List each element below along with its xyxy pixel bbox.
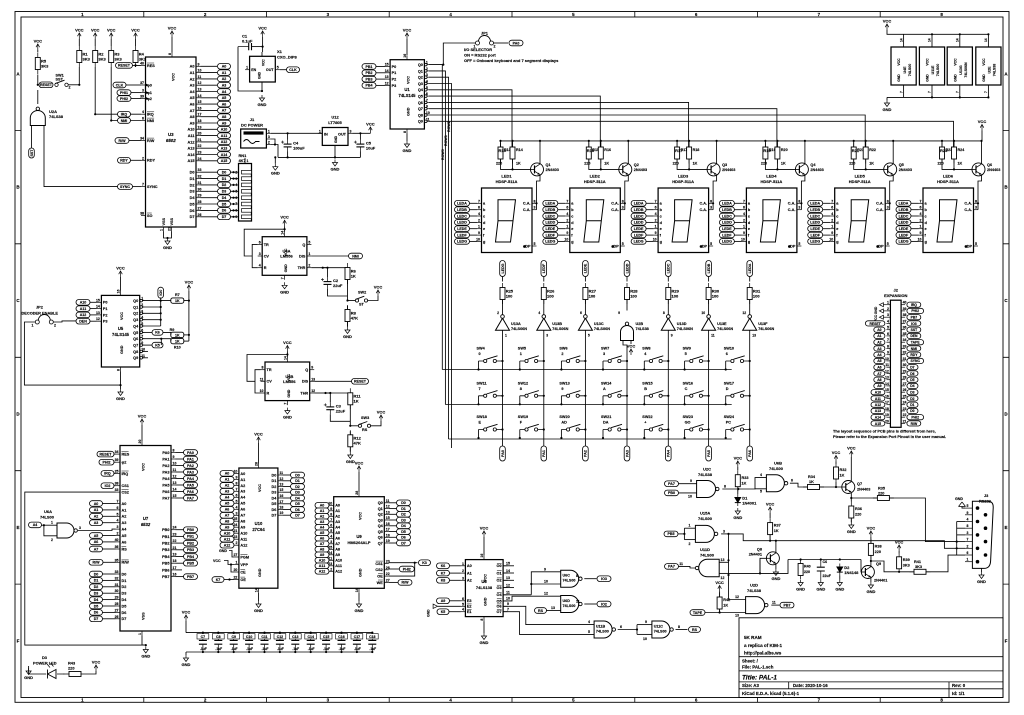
- svg-text:PB5: PB5: [187, 562, 194, 566]
- wire: [823, 234, 831, 236]
- svg-text:15: 15: [385, 63, 389, 67]
- svg-text:LEDE: LEDE: [457, 227, 467, 231]
- svg-text:A2: A2: [240, 484, 245, 488]
- node D3: [218, 189, 231, 195]
- svg-text:17: 17: [173, 566, 177, 570]
- node LEDB column: [706, 261, 712, 277]
- svg-text:R38: R38: [875, 544, 882, 548]
- svg-text:File: PAL-1.sch: File: PAL-1.sch: [742, 665, 774, 670]
- svg-text:C.A.: C.A.: [523, 202, 531, 206]
- svg-text:U6D: U6D: [563, 599, 571, 603]
- wire switch to row bus: [684, 361, 686, 370]
- capacitor C7 0.1uF: [202, 633, 204, 652]
- resistor R35 220: [873, 496, 894, 501]
- wire: [406, 134, 408, 142]
- svg-text:VCC: VCC: [131, 28, 140, 33]
- svg-text:CS2: CS2: [375, 568, 382, 572]
- wire: [347, 267, 349, 269]
- wire: [708, 330, 710, 355]
- power VCC: [280, 215, 289, 227]
- wire U5 Q9 stub: [143, 357, 149, 359]
- svg-text:D0: D0: [94, 572, 99, 576]
- switch SW1 SST: [55, 83, 58, 86]
- wire keyboard column: [584, 355, 586, 444]
- svg-text:6: 6: [235, 196, 237, 200]
- svg-text:24: 24: [198, 157, 202, 161]
- wire: [160, 298, 162, 301]
- svg-text:23: 23: [198, 151, 202, 155]
- svg-text:c: c: [660, 214, 662, 218]
- svg-text:1: 1: [235, 561, 237, 565]
- display LED1 segments: [496, 200, 516, 242]
- wire U6D out: [584, 603, 596, 605]
- svg-text:6: 6: [478, 206, 480, 210]
- svg-text:27: 27: [233, 553, 237, 557]
- node D6: [90, 610, 103, 616]
- svg-text:74LS00: 74LS00: [908, 64, 912, 77]
- svg-text:5: 5: [462, 602, 464, 606]
- wire switch to row bus: [725, 361, 727, 370]
- svg-text:4: 4: [462, 608, 464, 612]
- svg-text:16: 16: [279, 494, 283, 498]
- wire: [823, 202, 831, 204]
- svg-text:VCC: VCC: [832, 450, 841, 455]
- svg-text:J2: J2: [893, 288, 898, 293]
- svg-text:220: 220: [804, 570, 810, 574]
- svg-text:IRQ: IRQ: [121, 113, 128, 117]
- wire: [389, 536, 397, 538]
- wire R2 to IRQ: [95, 67, 141, 114]
- svg-text:JP1: JP1: [481, 31, 489, 36]
- svg-text:C15: C15: [323, 635, 329, 639]
- svg-text:A12: A12: [224, 544, 231, 548]
- decoder U8 74LS138: [465, 560, 503, 617]
- svg-text:D1: D1: [190, 177, 195, 181]
- display LED6 DP dot: [965, 245, 968, 248]
- resistor network RN1 4K7: [239, 164, 252, 222]
- svg-text:D6: D6: [272, 508, 277, 512]
- svg-text:PB0: PB0: [162, 528, 169, 532]
- svg-text:NMI: NMI: [911, 347, 917, 351]
- wire: [734, 202, 742, 204]
- display LED5 segments: [849, 200, 869, 242]
- wire U15A in jog: [683, 528, 685, 539]
- svg-text:GND: GND: [883, 107, 892, 112]
- svg-text:4: 4: [235, 505, 237, 509]
- svg-text:5: 5: [685, 352, 687, 356]
- decoder U8 pins: [461, 554, 508, 621]
- svg-text:8: 8: [534, 199, 536, 203]
- svg-text:NMI: NMI: [121, 119, 128, 123]
- wire: [103, 579, 116, 581]
- svg-text:12: 12: [385, 81, 389, 85]
- svg-text:A5: A5: [877, 359, 881, 363]
- wire collector to CA: [801, 175, 805, 210]
- svg-text:CLK: CLK: [116, 83, 124, 87]
- node A0: [220, 471, 234, 477]
- wire: [483, 537, 485, 555]
- wire: [389, 568, 399, 570]
- node D4: [291, 495, 305, 501]
- svg-text:R/W: R/W: [402, 581, 410, 585]
- svg-text:3: 3: [268, 135, 270, 139]
- svg-text:VCC: VCC: [138, 414, 147, 419]
- decoder U5 74LS145: [101, 295, 139, 367]
- wire: [262, 37, 264, 52]
- node LEDF: [896, 232, 911, 238]
- svg-text:Q4: Q4: [133, 324, 139, 328]
- node RESET J2: [865, 321, 885, 326]
- wire rail to Q9 base: [860, 560, 862, 573]
- svg-text:1N4001: 1N4001: [742, 500, 757, 505]
- svg-text:13: 13: [311, 377, 315, 381]
- svg-text:R35: R35: [878, 487, 885, 491]
- node A2: [218, 76, 231, 82]
- svg-text:R34: R34: [808, 475, 816, 479]
- svg-text:R14: R14: [516, 148, 524, 152]
- svg-text:100: 100: [547, 293, 554, 298]
- wire: [282, 503, 291, 505]
- svg-text:LEDC: LEDC: [667, 263, 671, 273]
- svg-text:13: 13: [735, 613, 739, 617]
- wire U2A input B to SYNC: [44, 126, 118, 187]
- resistor R42 1K: [717, 593, 722, 614]
- node K3: [419, 560, 431, 566]
- node LEDC: [631, 213, 646, 219]
- svg-text:VCC: VCC: [403, 28, 412, 33]
- svg-text:4: 4: [566, 212, 568, 216]
- wire switch to row bus: [643, 396, 645, 405]
- svg-text:LEDG: LEDG: [810, 240, 820, 244]
- svg-text:D1: D1: [122, 579, 127, 583]
- wire: [103, 515, 116, 517]
- svg-text:D6: D6: [222, 209, 227, 213]
- svg-text:11: 11: [198, 75, 202, 79]
- node D1 J2: [907, 402, 918, 407]
- svg-text:PA5: PA5: [162, 483, 169, 487]
- svg-text:R41: R41: [914, 560, 921, 564]
- svg-text:D7: D7: [401, 541, 406, 545]
- wire collector to R41: [871, 561, 914, 572]
- svg-text:6: 6: [726, 352, 728, 356]
- svg-text:22: 22: [903, 413, 907, 417]
- wire U11C out: [676, 629, 688, 631]
- svg-text:A10: A10: [240, 532, 247, 536]
- svg-text:2: 2: [566, 218, 568, 222]
- svg-text:Please refer to the Expansion: Please refer to the Expansion Port Pinou…: [833, 434, 946, 439]
- svg-text:74LS00: 74LS00: [596, 629, 609, 633]
- node K5: [437, 609, 449, 615]
- wire emitter to rail: [539, 141, 541, 164]
- svg-text:C.A.: C.A.: [611, 208, 619, 212]
- connector J1 DC power: [241, 129, 267, 148]
- decoder U5 output bubbles: [140, 299, 143, 302]
- svg-text:TAPE: TAPE: [911, 341, 921, 345]
- wire: [558, 215, 566, 217]
- wire: [483, 621, 485, 633]
- svg-text:18: 18: [386, 533, 390, 537]
- svg-text:Q8: Q8: [418, 113, 423, 117]
- svg-text:9: 9: [655, 231, 657, 235]
- svg-text:7: 7: [831, 199, 833, 203]
- resistor R13 220: [498, 143, 507, 164]
- svg-text:VCC: VCC: [978, 119, 987, 124]
- wire: [494, 42, 509, 44]
- svg-text:U7: U7: [143, 516, 149, 521]
- svg-text:LEDD: LEDD: [634, 221, 644, 225]
- wire U5 Q1: [143, 306, 161, 308]
- wire: [244, 158, 246, 164]
- svg-text:8: 8: [168, 53, 172, 55]
- svg-text:A6: A6: [335, 537, 340, 541]
- svg-text:PB1: PB1: [366, 65, 373, 69]
- svg-text:D0: D0: [401, 501, 406, 505]
- node A6: [315, 536, 329, 542]
- svg-text:2: 2: [831, 218, 833, 222]
- wire: [749, 444, 751, 446]
- svg-text:74LS06N: 74LS06N: [594, 327, 610, 331]
- wire: [201, 178, 239, 180]
- switch SW20 key AD: [561, 429, 585, 431]
- wire THR chain A: [323, 267, 348, 269]
- svg-text:Q2: Q2: [378, 513, 383, 517]
- svg-text:GND: GND: [258, 71, 262, 79]
- svg-text:X1: X1: [277, 49, 283, 54]
- svg-text:2N4403: 2N4403: [546, 168, 559, 172]
- node NMI: [118, 118, 131, 124]
- resistor R23 220: [940, 143, 949, 164]
- svg-text:PB7: PB7: [784, 603, 791, 607]
- svg-text:11: 11: [260, 377, 264, 381]
- svg-text:GND: GND: [427, 609, 431, 617]
- svg-text:5: 5: [798, 242, 800, 246]
- svg-text:Q7: Q7: [133, 343, 138, 347]
- capacitor C18 0.1uF: [371, 633, 373, 652]
- svg-text:SW19: SW19: [518, 415, 528, 419]
- svg-text:GND: GND: [219, 549, 227, 553]
- svg-text:12: 12: [279, 477, 283, 481]
- resistor R6 1K: [345, 263, 357, 284]
- transistor Q7 2N4403: [842, 481, 855, 494]
- svg-text:DP: DP: [525, 244, 531, 248]
- svg-text:LED3: LED3: [678, 174, 689, 179]
- svg-text:Q2: Q2: [133, 312, 138, 316]
- svg-text:7: 7: [281, 277, 285, 279]
- node DEN J2: [907, 333, 921, 338]
- wire base: [777, 159, 795, 169]
- svg-text:A5: A5: [240, 502, 245, 506]
- node A3: [90, 520, 103, 526]
- wire: [911, 221, 919, 223]
- node A7 J2: [874, 371, 885, 376]
- wire: [201, 78, 218, 80]
- resistor network RN1 elements: [235, 170, 251, 219]
- svg-text:74LS145: 74LS145: [399, 93, 417, 98]
- wire vertical to U2D in12: [729, 534, 746, 600]
- display LED3 DP dot: [700, 245, 703, 248]
- svg-text:A14: A14: [221, 153, 228, 157]
- svg-text:14: 14: [283, 356, 287, 360]
- node D6 J2: [907, 371, 918, 376]
- capacitor C8 0.1uF: [217, 633, 219, 652]
- wire: [769, 513, 771, 518]
- riot U7 6532: [120, 446, 171, 632]
- svg-text:DC POWER: DC POWER: [241, 123, 263, 128]
- svg-text:KiCad E.D.A. kicad (5.1.6)-1: KiCad E.D.A. kicad (5.1.6)-1: [742, 691, 800, 696]
- svg-text:D4: D4: [222, 196, 227, 200]
- svg-text:1: 1: [308, 252, 310, 256]
- svg-text:10: 10: [885, 357, 889, 361]
- svg-text:O5: O5: [497, 599, 502, 603]
- wire R37 node to J3 pin2: [770, 541, 957, 549]
- svg-text:11: 11: [173, 468, 177, 472]
- svg-text:D3: D3: [122, 592, 127, 596]
- svg-text:5: 5: [330, 529, 332, 533]
- svg-text:40: 40: [903, 301, 907, 305]
- svg-text:GND: GND: [163, 245, 172, 250]
- svg-text:3: 3: [330, 540, 332, 544]
- wire: [328, 554, 330, 556]
- node LEDG: [896, 239, 911, 245]
- svg-text:LED1: LED1: [501, 174, 512, 179]
- svg-text:PB4: PB4: [162, 555, 170, 559]
- wire: [334, 145, 336, 157]
- node LEDG: [631, 239, 646, 245]
- svg-text:SW21: SW21: [601, 415, 611, 419]
- wire tie pin3: [957, 541, 965, 543]
- svg-text:14: 14: [355, 588, 359, 592]
- svg-text:PB6: PB6: [162, 568, 169, 572]
- svg-text:3: 3: [235, 177, 237, 181]
- svg-text:A8: A8: [335, 548, 340, 552]
- wire: [63, 673, 65, 675]
- svg-text:D1: D1: [222, 177, 227, 181]
- svg-text:GND: GND: [280, 289, 289, 294]
- capacitor C2 22uF: [321, 277, 343, 289]
- node PB3: [362, 76, 376, 82]
- resistor R31 100: [747, 283, 761, 304]
- svg-text:100: 100: [672, 293, 679, 298]
- svg-text:GND: GND: [334, 135, 338, 143]
- svg-text:IRQ: IRQ: [122, 472, 129, 476]
- power VCC: [715, 580, 724, 592]
- wire: [708, 444, 710, 446]
- riot U7 pins: [115, 440, 177, 636]
- node D4: [397, 523, 411, 529]
- node D2: [397, 512, 411, 518]
- svg-text:VCC: VCC: [262, 59, 266, 66]
- svg-text:74LS00: 74LS00: [563, 579, 576, 583]
- gate U2C 74LS38: [697, 481, 716, 498]
- svg-text:39: 39: [140, 95, 144, 99]
- svg-text:18: 18: [198, 119, 202, 123]
- svg-text:Q0: Q0: [418, 63, 423, 67]
- wire: [898, 551, 900, 554]
- wire: [600, 141, 602, 147]
- svg-text:A4: A4: [222, 90, 227, 94]
- svg-text:PB1: PB1: [187, 535, 194, 539]
- svg-text:LEDG: LEDG: [545, 240, 555, 244]
- wire JP1 to Q0 line: [443, 43, 475, 65]
- wire: [470, 209, 478, 211]
- resistor R20 1K: [775, 143, 780, 164]
- svg-text:LEDG: LEDG: [722, 240, 732, 244]
- wire: [78, 67, 80, 85]
- node R/W J2: [907, 421, 921, 426]
- display LED4 pins: [741, 199, 801, 248]
- svg-text:A2: A2: [877, 341, 881, 345]
- node D5: [397, 529, 411, 535]
- svg-text:27C64: 27C64: [252, 527, 265, 532]
- svg-text:GND: GND: [287, 389, 291, 397]
- node D1: [291, 478, 305, 484]
- svg-text:SW24: SW24: [724, 415, 735, 419]
- svg-text:A2: A2: [222, 77, 227, 81]
- wire: [911, 202, 919, 204]
- svg-text:LT7805: LT7805: [328, 120, 342, 125]
- svg-text:A12: A12: [240, 544, 247, 548]
- ground: [258, 95, 267, 107]
- svg-text:D0: D0: [295, 473, 300, 477]
- svg-text:4K7: 4K7: [239, 158, 246, 163]
- wire: [676, 141, 678, 147]
- svg-text:LED2: LED2: [590, 174, 601, 179]
- wire R34 to Q7 base: [820, 486, 842, 488]
- svg-text:GND: GND: [847, 529, 856, 534]
- resistor R29 100: [666, 283, 680, 304]
- svg-text:J1: J1: [250, 117, 255, 122]
- svg-text:LEDA: LEDA: [634, 202, 644, 206]
- connector J2 pins: [885, 301, 907, 424]
- wire tie pin4: [957, 527, 965, 529]
- wire to R35: [851, 497, 877, 499]
- svg-text:Q3: Q3: [378, 518, 383, 522]
- svg-text:PA0: PA0: [501, 450, 505, 457]
- svg-text:A7: A7: [335, 542, 340, 546]
- svg-text:13: 13: [551, 606, 555, 610]
- wire tie pin9: [957, 521, 965, 523]
- node SYNC: [118, 184, 133, 190]
- svg-text:74LS00: 74LS00: [563, 604, 576, 608]
- svg-text:1K: 1K: [175, 340, 180, 344]
- svg-text:9: 9: [478, 231, 480, 235]
- svg-text:A5: A5: [190, 96, 195, 100]
- svg-text:28: 28: [255, 462, 259, 466]
- wire: [389, 581, 398, 583]
- node LEDE: [455, 226, 470, 232]
- svg-text:POWER LED: POWER LED: [33, 661, 57, 666]
- wire switch to row bus: [519, 361, 521, 370]
- wire: [142, 636, 146, 646]
- wire: [90, 308, 97, 310]
- transistor Q2 2N4403: [619, 163, 632, 176]
- svg-text:8: 8: [173, 449, 175, 453]
- resistor R12 47K: [348, 430, 362, 451]
- wire: [311, 255, 348, 257]
- resistor R10 1K: [171, 338, 184, 343]
- ground: [141, 647, 150, 659]
- svg-text:D7: D7: [295, 514, 300, 518]
- wire: [667, 330, 669, 355]
- node PA4: [184, 476, 198, 482]
- wire: [835, 462, 837, 465]
- wire gnd bus spare gates: [887, 96, 989, 98]
- wire: [78, 39, 80, 46]
- node A1: [90, 507, 103, 513]
- svg-text:A8: A8: [225, 520, 230, 524]
- wire: [261, 82, 263, 91]
- svg-text:A2: A2: [225, 484, 230, 488]
